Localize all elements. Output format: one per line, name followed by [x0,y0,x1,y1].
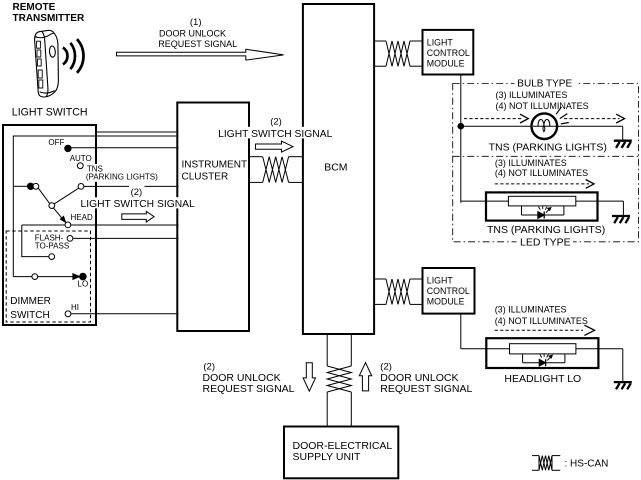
svg-text:: HS-CAN: : HS-CAN [565,459,609,470]
svg-text:HEAD: HEAD [71,213,93,222]
svg-text:CONTROL: CONTROL [427,48,470,58]
svg-text:(2): (2) [131,187,143,198]
svg-text:DIMMER: DIMMER [10,296,51,307]
svg-text:(PARKING LIGHTS): (PARKING LIGHTS) [86,172,158,181]
svg-text:HI: HI [71,303,79,312]
svg-text:(4) NOT ILLUMINATES: (4) NOT ILLUMINATES [495,168,588,178]
svg-text:HEADLIGHT LO: HEADLIGHT LO [504,373,581,385]
svg-text:REQUEST SIGNAL: REQUEST SIGNAL [380,383,472,395]
svg-text:(3) ILLUMINATES: (3) ILLUMINATES [495,305,567,315]
svg-text:LIGHT SWITCH: LIGHT SWITCH [12,107,88,119]
svg-text:TO-PASS: TO-PASS [35,241,69,250]
svg-text:AUTO: AUTO [70,154,92,163]
svg-text:(2): (2) [203,361,215,372]
svg-text:LO: LO [78,280,89,289]
svg-text:CLUSTER: CLUSTER [182,171,229,182]
svg-text:OFF: OFF [48,138,64,147]
svg-text:TRANSMITTER: TRANSMITTER [13,13,85,24]
svg-text:TNS (PARKING LIGHTS): TNS (PARKING LIGHTS) [489,141,607,153]
svg-text:REQUEST SIGNAL: REQUEST SIGNAL [203,383,295,395]
svg-text:SUPPLY UNIT: SUPPLY UNIT [293,451,361,463]
svg-text:MODULE: MODULE [427,297,465,307]
svg-text:LIGHT: LIGHT [427,38,454,48]
svg-text:SWITCH: SWITCH [10,310,49,321]
svg-text:TNS (PARKING LIGHTS): TNS (PARKING LIGHTS) [487,224,605,236]
svg-text:(4) NOT ILLUMINATES: (4) NOT ILLUMINATES [496,101,589,111]
svg-text:REQUEST SIGNAL: REQUEST SIGNAL [158,39,237,49]
svg-text:MODULE: MODULE [427,59,465,69]
svg-text:REMOTE: REMOTE [13,2,56,13]
svg-text:(4) NOT ILLUMINATES: (4) NOT ILLUMINATES [495,316,588,326]
svg-text:CONTROL: CONTROL [427,286,470,296]
svg-text:LED TYPE: LED TYPE [520,237,571,249]
svg-text:(2): (2) [270,116,282,127]
svg-text:LIGHT SWITCH SIGNAL: LIGHT SWITCH SIGNAL [81,199,196,210]
svg-text:BULB TYPE: BULB TYPE [517,79,572,90]
svg-text:LIGHT: LIGHT [427,276,454,286]
svg-text:LIGHT SWITCH SIGNAL: LIGHT SWITCH SIGNAL [218,129,333,140]
svg-text:(1): (1) [190,17,202,28]
svg-text:(2): (2) [380,361,392,372]
svg-text:DOOR UNLOCK: DOOR UNLOCK [159,29,226,39]
svg-text:BCM: BCM [324,161,347,173]
svg-text:(3) ILLUMINATES: (3) ILLUMINATES [495,158,567,168]
svg-text:INSTRUMENT: INSTRUMENT [182,159,248,170]
svg-text:(3) ILLUMINATES: (3) ILLUMINATES [496,90,568,100]
